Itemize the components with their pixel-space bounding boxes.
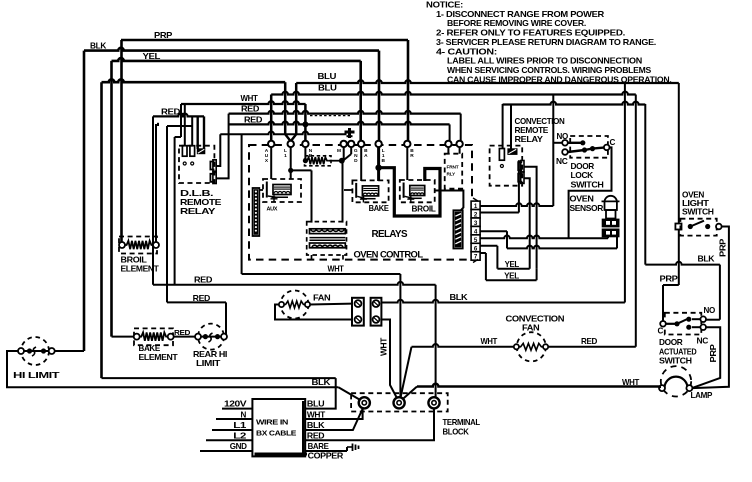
wire DLB contact1 to GND link bbox=[216, 134, 220, 166]
svg-text:L1: L1 bbox=[233, 421, 247, 430]
wire resistor to transformer bbox=[342, 161, 344, 223]
wire pin2 to convection relay coil bbox=[480, 160, 519, 212]
label convection remote relay bbox=[515, 117, 565, 144]
svg-text:RELAY: RELAY bbox=[180, 207, 216, 216]
contact DLB output 2 bbox=[210, 172, 216, 183]
wire PRP lamp feed bbox=[692, 227, 729, 389]
contact convection output 2 bbox=[518, 172, 524, 183]
terminal L1B bbox=[375, 141, 385, 164]
svg-text:GND: GND bbox=[230, 442, 247, 451]
svg-text:C: C bbox=[610, 138, 616, 147]
terminal FRNT RLY 2 bbox=[456, 141, 462, 147]
wire WHT from BX bbox=[305, 408, 362, 419]
svg-text:L2: L2 bbox=[233, 431, 247, 440]
wire oven control bottom white line bbox=[242, 134, 401, 274]
relay U1 D.L.B. remote relay box bbox=[179, 146, 214, 183]
svg-text:RED: RED bbox=[161, 107, 181, 116]
svg-text:REMOTE: REMOTE bbox=[180, 198, 222, 207]
wire YEL pin6 bbox=[480, 246, 530, 269]
contact DLB output 1 bbox=[210, 160, 216, 171]
wire riser V3 to L1 bbox=[291, 83, 297, 141]
svg-text:WHT: WHT bbox=[622, 378, 639, 387]
wire riser PRP to broil element bbox=[120, 40, 123, 243]
wire RED drop to terminal block right bbox=[435, 285, 437, 398]
wire BLU bus left segment bbox=[102, 72, 337, 82]
svg-text:LOCK: LOCK bbox=[571, 171, 594, 180]
wire GND link bbox=[220, 132, 346, 135]
svg-text:PRP: PRP bbox=[709, 343, 718, 362]
wire convection relay feeds bbox=[503, 104, 511, 149]
svg-text:ELEMENT: ELEMENT bbox=[121, 265, 159, 274]
terminal BA bbox=[358, 141, 368, 159]
wire BLU from BX bbox=[305, 378, 336, 409]
svg-text:R: R bbox=[410, 153, 414, 159]
terminal NB bbox=[302, 141, 313, 159]
svg-text:RED: RED bbox=[581, 337, 597, 346]
svg-text:PRP: PRP bbox=[719, 238, 728, 257]
connector strip right bbox=[453, 210, 462, 248]
wire fan plug to terminal block bbox=[380, 320, 399, 401]
wire WHT bus bbox=[181, 94, 645, 105]
connector fan plug right bbox=[371, 298, 382, 326]
wire convection contact1 down bbox=[524, 167, 537, 269]
wire riser YEL to BA terminal bbox=[359, 61, 362, 141]
label GND bbox=[200, 442, 252, 451]
label terminal block bbox=[443, 418, 481, 436]
svg-text:D.L.B.: D.L.B. bbox=[180, 189, 213, 198]
wire WHT bottom line to lamp bbox=[401, 378, 661, 401]
relay AUX bbox=[263, 179, 301, 202]
svg-text:COPPER: COPPER bbox=[308, 452, 344, 461]
svg-text:PRP: PRP bbox=[154, 31, 173, 40]
wire L1 junction down bbox=[288, 147, 293, 179]
wire BLU drop to oven light switch bbox=[678, 83, 680, 223]
connector fan plug left bbox=[352, 298, 364, 326]
label DOOR LOCK SWITCH text bbox=[571, 162, 605, 190]
svg-text:REAR HI: REAR HI bbox=[193, 350, 227, 359]
wire bare copper ground bbox=[305, 442, 358, 461]
svg-text:2: 2 bbox=[474, 212, 478, 219]
wire L1B thick loop to broil relay bbox=[379, 168, 440, 216]
wire DLB jog upper bbox=[167, 126, 192, 302]
label L1 bbox=[212, 421, 252, 430]
svg-text:BLK: BLK bbox=[450, 293, 468, 302]
terminal BR bbox=[404, 141, 414, 159]
svg-text:1: 1 bbox=[474, 203, 478, 210]
svg-text:BLK: BLK bbox=[698, 255, 715, 264]
svg-text:LIMIT: LIMIT bbox=[196, 359, 220, 368]
svg-text:SWITCH: SWITCH bbox=[659, 357, 692, 366]
svg-text:NC: NC bbox=[556, 157, 568, 166]
motor M1 fan bbox=[279, 291, 310, 319]
label broil element bbox=[121, 256, 159, 274]
svg-text:RED: RED bbox=[193, 294, 211, 303]
wire bake element to rear hi limit bbox=[174, 336, 195, 338]
svg-text:RED: RED bbox=[241, 105, 260, 114]
wire BA into bake relay bbox=[360, 147, 362, 181]
svg-text:AUX: AUX bbox=[267, 207, 278, 213]
label N bbox=[216, 410, 252, 419]
svg-text:YEL: YEL bbox=[143, 52, 161, 61]
wire riser NB from WHT bus corner bbox=[304, 104, 307, 141]
label oven light switch bbox=[682, 191, 714, 217]
label rear hi limit bbox=[193, 350, 227, 368]
terminal AUX bbox=[265, 141, 275, 164]
svg-text:BLOCK: BLOCK bbox=[443, 427, 469, 436]
relay FRNT RLY box bbox=[445, 154, 463, 189]
wire M GND to resistor junction bbox=[344, 147, 352, 160]
thermostat rear hi limit bbox=[195, 324, 227, 350]
wire L1 branch to transformer bbox=[291, 170, 312, 222]
svg-text:BLK: BLK bbox=[312, 378, 331, 387]
relay U2 convection remote relay bbox=[490, 146, 523, 186]
svg-text:BAKE: BAKE bbox=[139, 344, 161, 353]
wire DLB jog lower bbox=[175, 104, 181, 285]
svg-text:BARE: BARE bbox=[308, 442, 330, 451]
svg-text:CONVECTION: CONVECTION bbox=[506, 315, 565, 324]
wire RED lower line 2 to rear hi-limit bbox=[167, 294, 226, 337]
wire RED bus upper bbox=[229, 105, 461, 114]
svg-text:SWITCH: SWITCH bbox=[571, 180, 605, 189]
switch S2 oven light switch bbox=[675, 219, 721, 236]
svg-text:M: M bbox=[337, 148, 341, 154]
svg-text:YEL: YEL bbox=[505, 260, 520, 269]
wire fan to plugs bbox=[275, 304, 352, 320]
wire BLU lower drop to convection RED bbox=[635, 95, 637, 347]
svg-text:WHT: WHT bbox=[241, 94, 258, 103]
label bake element bbox=[139, 344, 178, 362]
svg-text:WHT: WHT bbox=[307, 410, 325, 419]
svg-text:FAN: FAN bbox=[313, 294, 331, 303]
power supply box wire in BX cable bbox=[252, 399, 307, 456]
svg-text:SENSOR: SENSOR bbox=[570, 204, 604, 213]
svg-text:N: N bbox=[241, 410, 247, 419]
wire riser V2 to L1 bbox=[285, 82, 291, 141]
transformer T1 bbox=[307, 222, 347, 260]
svg-text:BLU: BLU bbox=[307, 400, 325, 409]
svg-text:BROIL: BROIL bbox=[121, 256, 147, 265]
svg-text:WHT: WHT bbox=[481, 337, 498, 346]
wire riser BLU to terminal block bbox=[102, 82, 336, 378]
wire BLK bus bbox=[84, 42, 379, 51]
svg-text:BLK: BLK bbox=[90, 42, 107, 51]
wire WHT bus drop to BLK NO line bbox=[645, 104, 720, 265]
wire hi limit to bottom BLK line bbox=[7, 351, 362, 401]
svg-text:6: 6 bbox=[474, 245, 478, 252]
svg-text:YEL: YEL bbox=[504, 272, 519, 281]
wire WHT to convection fan bbox=[400, 337, 514, 400]
wire light switch to door C bbox=[660, 230, 679, 321]
connector CN1 pins 1-7 bbox=[471, 198, 480, 263]
wire bake relay to transformer bbox=[344, 189, 352, 191]
svg-text:RLY: RLY bbox=[447, 172, 457, 178]
svg-text:120V: 120V bbox=[224, 400, 247, 409]
svg-text:BROIL: BROIL bbox=[412, 205, 436, 214]
svg-text:ELEMENT: ELEMENT bbox=[139, 353, 178, 362]
wire RED lower line 1 bbox=[153, 276, 436, 285]
wire RED upper to FRNT RLY 2 bbox=[460, 114, 461, 154]
lamp L1 oven lamp bbox=[659, 366, 692, 396]
wire RED lower to FRNT RLY 1 bbox=[448, 124, 449, 153]
wire RLY feed pair into DLB relay bbox=[198, 116, 204, 149]
svg-text:1: 1 bbox=[284, 153, 287, 159]
label 120V bbox=[222, 400, 252, 409]
svg-text:A: A bbox=[364, 153, 368, 159]
wire BLU lower branch bbox=[271, 92, 636, 95]
switch S1 door lock switch bbox=[562, 136, 609, 158]
svg-text:TERMINAL: TERMINAL bbox=[443, 418, 481, 427]
wire NB to resistor bbox=[304, 147, 306, 159]
wire BR into broil relay bbox=[406, 147, 408, 180]
svg-text:RELAY: RELAY bbox=[515, 135, 544, 144]
wire BLK from BX bbox=[305, 409, 362, 430]
wire BLU bus right segment bbox=[296, 80, 679, 93]
label convection fan bbox=[506, 315, 565, 333]
svg-text:DOOR: DOOR bbox=[659, 338, 683, 347]
svg-text:CONVECTION: CONVECTION bbox=[515, 117, 565, 126]
svg-text:D: D bbox=[354, 158, 358, 164]
wire RED feed top-left bbox=[153, 107, 204, 116]
wire broil relay output to strip bbox=[435, 191, 464, 211]
svg-text:NC: NC bbox=[697, 337, 709, 346]
wire riser BLK to hi-limit bbox=[52, 51, 84, 351]
label door actuated switch bbox=[659, 338, 697, 366]
label L2 bbox=[206, 431, 252, 440]
wire door lock C path bbox=[569, 147, 612, 238]
svg-text:BLU: BLU bbox=[318, 72, 337, 81]
svg-text:C: C bbox=[658, 327, 664, 336]
wire riser PRP to BR terminal bbox=[407, 40, 410, 141]
svg-text:B: B bbox=[381, 158, 385, 164]
svg-text:FRNT: FRNT bbox=[447, 165, 459, 171]
wire pin4 to oven sensor bbox=[480, 231, 617, 248]
oven control dashed box bbox=[249, 145, 472, 260]
motor M2 convection fan bbox=[514, 332, 548, 361]
svg-text:DOOR: DOOR bbox=[571, 162, 595, 171]
wire RED bus lower bbox=[229, 115, 450, 127]
relay BAKE bbox=[352, 180, 388, 202]
wire PRP bus bbox=[121, 31, 408, 40]
svg-text:RED: RED bbox=[307, 431, 325, 440]
wire YEL pin7 bbox=[480, 253, 536, 281]
notice text block bbox=[426, 0, 672, 84]
label DLB remote relay bbox=[180, 189, 222, 216]
svg-text:WHT: WHT bbox=[328, 264, 344, 273]
svg-text:RED: RED bbox=[194, 276, 213, 285]
svg-text:WIRE IN: WIRE IN bbox=[256, 418, 288, 427]
wire riser BLK to L1B terminal bbox=[378, 51, 381, 141]
wire convection contact2 down bbox=[524, 178, 530, 269]
wire pin5 to door lock C bbox=[480, 235, 608, 238]
wire RED drop to lower red line bbox=[152, 116, 154, 284]
resistor broil element bbox=[119, 237, 159, 254]
wire RED branch to broil element bbox=[156, 123, 158, 245]
svg-text:PRP: PRP bbox=[660, 275, 679, 284]
wire riser V1 to AUX terminal bbox=[270, 95, 273, 142]
svg-text:LAMP: LAMP bbox=[691, 391, 713, 400]
terminal block terminal 1 bbox=[359, 397, 370, 408]
wire RED from BX bbox=[305, 408, 434, 440]
svg-text:BX CABLE: BX CABLE bbox=[256, 428, 296, 437]
resistor bake element bbox=[134, 328, 174, 345]
svg-text:BLK: BLK bbox=[307, 421, 325, 430]
connector strip left bbox=[253, 188, 260, 236]
terminal M bbox=[337, 141, 347, 154]
svg-text:HI LIMIT: HI LIMIT bbox=[13, 371, 60, 380]
contact convection output 1 bbox=[518, 161, 524, 172]
terminal block terminal 3 bbox=[428, 397, 439, 408]
terminal GND with ground cross symbol bbox=[345, 128, 359, 164]
wire L1B junction bbox=[375, 147, 381, 181]
svg-text:OVEN CONTROL: OVEN CONTROL bbox=[354, 250, 424, 260]
terminal block dashed box bbox=[351, 393, 448, 411]
svg-text:5: 5 bbox=[474, 237, 478, 244]
wire WHT oven control drop bbox=[399, 274, 401, 398]
svg-text:3: 3 bbox=[474, 220, 478, 227]
sensor oven sensor probe bbox=[602, 196, 620, 237]
wire coil risers into DLB relay bbox=[185, 104, 192, 147]
wire riser YEL to bake element bbox=[112, 61, 137, 337]
svg-text:NO: NO bbox=[704, 306, 715, 315]
wire aux relay to left strip bbox=[259, 189, 263, 191]
terminal L1 bbox=[284, 141, 294, 159]
switch S3 door actuated switch bbox=[660, 313, 706, 335]
relay BROIL bbox=[400, 180, 435, 202]
wire BLK to door NO bbox=[706, 265, 720, 320]
wire pin1 to door lock NO bbox=[480, 95, 562, 207]
svg-text:4: 4 bbox=[474, 228, 478, 235]
wire BLK fan line bbox=[381, 83, 625, 303]
resistor oven control R1 bbox=[303, 156, 345, 166]
wire DLB contact2 to RED bus bbox=[216, 114, 228, 179]
svg-text:REMOTE: REMOTE bbox=[515, 126, 549, 135]
thermostat hi limit bbox=[18, 337, 55, 365]
svg-text:BLU: BLU bbox=[318, 84, 337, 93]
svg-text:RED: RED bbox=[244, 115, 263, 124]
terminal block terminal 2 bbox=[394, 397, 405, 408]
wire AUX terminal into relay bbox=[270, 147, 272, 179]
label oven sensor bbox=[570, 195, 604, 213]
wire RED from convection fan bbox=[548, 337, 636, 347]
terminal FRNT RLY 1 bbox=[445, 141, 451, 147]
svg-text:BAKE: BAKE bbox=[369, 204, 390, 213]
svg-text:RELAYS: RELAYS bbox=[372, 229, 408, 240]
svg-text:WHT: WHT bbox=[380, 338, 389, 356]
svg-text:NO: NO bbox=[557, 132, 568, 141]
svg-text:OVEN: OVEN bbox=[570, 195, 595, 204]
svg-text:SWITCH: SWITCH bbox=[682, 208, 714, 217]
svg-text:ACTUATED: ACTUATED bbox=[659, 347, 697, 356]
wire NC to lamp bbox=[692, 327, 720, 388]
wire YEL bus bbox=[112, 52, 361, 61]
